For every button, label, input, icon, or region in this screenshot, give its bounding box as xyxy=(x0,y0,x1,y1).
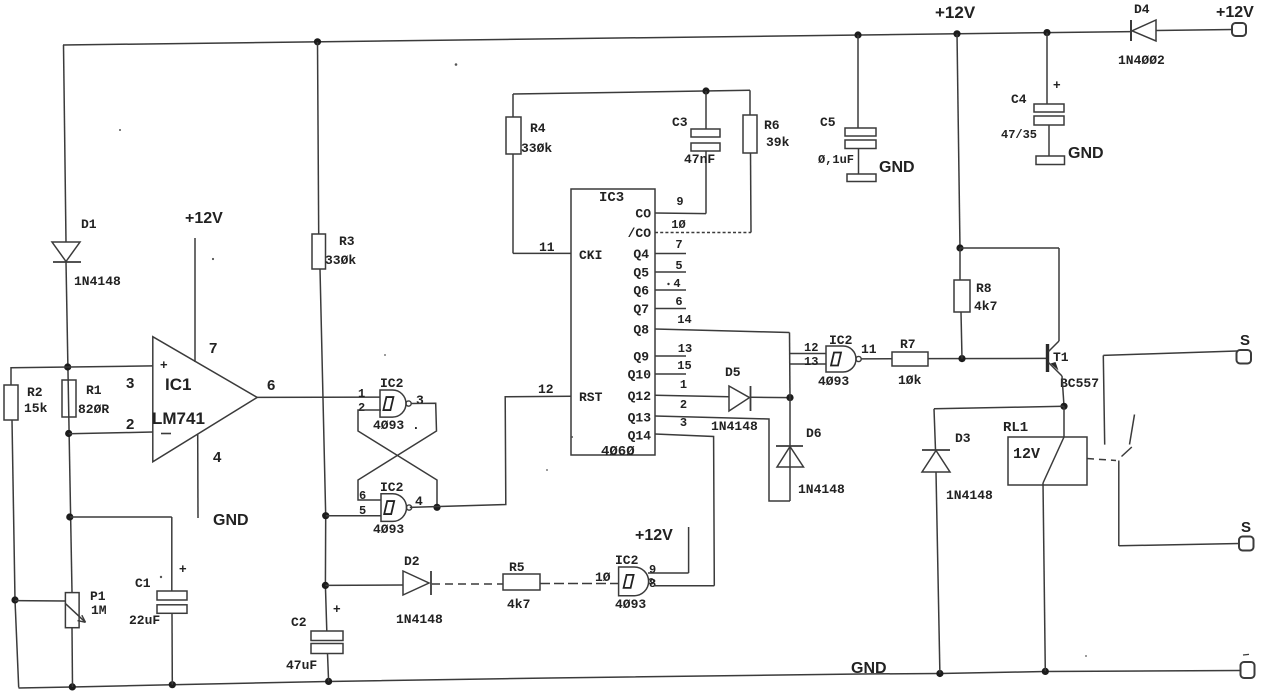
svg-text:CO: CO xyxy=(635,207,651,222)
svg-text:R2: R2 xyxy=(27,385,43,400)
svg-text:IC2: IC2 xyxy=(380,480,404,495)
svg-text:4Ø93: 4Ø93 xyxy=(615,597,646,612)
svg-text:C2: C2 xyxy=(291,615,307,630)
svg-text:IC2: IC2 xyxy=(829,333,853,348)
svg-text:+: + xyxy=(1053,77,1061,92)
svg-text:Q12: Q12 xyxy=(628,389,652,404)
svg-text:GND: GND xyxy=(879,159,915,176)
svg-text:IC2: IC2 xyxy=(615,553,639,568)
svg-text:1: 1 xyxy=(358,387,365,401)
svg-text:2: 2 xyxy=(358,401,365,415)
svg-text:12: 12 xyxy=(538,382,554,397)
svg-text:1Ø: 1Ø xyxy=(595,570,611,585)
svg-text:6: 6 xyxy=(675,295,682,309)
svg-text:S: S xyxy=(1241,519,1251,536)
svg-text:1N4148: 1N4148 xyxy=(798,482,845,497)
svg-text:D4: D4 xyxy=(1134,2,1150,17)
svg-text:47nF: 47nF xyxy=(684,152,715,167)
svg-text:+12V: +12V xyxy=(935,3,976,22)
svg-text:1Øk: 1Øk xyxy=(898,373,922,388)
svg-text:12V: 12V xyxy=(1013,446,1040,463)
svg-text:S: S xyxy=(1240,332,1250,349)
svg-text:1N4ØØ2: 1N4ØØ2 xyxy=(1118,53,1165,68)
svg-text:GND: GND xyxy=(851,660,887,677)
svg-text:6: 6 xyxy=(359,489,366,503)
svg-text:Q8: Q8 xyxy=(633,323,649,338)
svg-text:9: 9 xyxy=(649,563,656,577)
svg-text:GND: GND xyxy=(213,512,249,529)
svg-text:D2: D2 xyxy=(404,554,420,569)
svg-text:9: 9 xyxy=(676,195,683,209)
svg-text:Q5: Q5 xyxy=(633,266,649,281)
svg-text:47uF: 47uF xyxy=(286,658,317,673)
svg-text:Q10: Q10 xyxy=(628,368,652,383)
svg-text:GND: GND xyxy=(1068,145,1104,162)
svg-text:LM741: LM741 xyxy=(152,409,205,428)
svg-text:D1: D1 xyxy=(81,217,97,232)
svg-text:R5: R5 xyxy=(509,560,525,575)
svg-text:RL1: RL1 xyxy=(1003,420,1028,436)
svg-text:5: 5 xyxy=(675,259,682,273)
svg-text:1N4148: 1N4148 xyxy=(946,488,993,503)
svg-text:1: 1 xyxy=(680,378,687,392)
svg-text:2: 2 xyxy=(680,398,687,412)
svg-text:4: 4 xyxy=(213,449,222,466)
svg-text:C3: C3 xyxy=(672,115,688,130)
svg-text:T1: T1 xyxy=(1053,350,1069,365)
svg-text:33Øk: 33Øk xyxy=(521,141,552,156)
svg-text:8: 8 xyxy=(649,577,656,591)
svg-text:Q14: Q14 xyxy=(628,429,652,444)
svg-text:3: 3 xyxy=(416,393,424,408)
svg-text:Q9: Q9 xyxy=(633,350,649,365)
svg-text:Ø,1uF: Ø,1uF xyxy=(818,153,854,167)
svg-text:4Ø93: 4Ø93 xyxy=(818,374,849,389)
svg-text:D5: D5 xyxy=(725,365,741,380)
svg-text:39k: 39k xyxy=(766,135,790,150)
svg-text:/CO: /CO xyxy=(628,226,652,241)
svg-text:1N4148: 1N4148 xyxy=(711,419,758,434)
svg-text:+: + xyxy=(179,561,187,576)
svg-text:15k: 15k xyxy=(24,401,48,416)
svg-text:22uF: 22uF xyxy=(129,613,160,628)
svg-text:6: 6 xyxy=(267,377,275,394)
svg-text:R1: R1 xyxy=(86,383,102,398)
svg-text:IC2: IC2 xyxy=(380,376,404,391)
svg-text:4k7: 4k7 xyxy=(507,597,530,612)
svg-text:11: 11 xyxy=(539,240,555,255)
svg-text:4: 4 xyxy=(673,277,680,291)
svg-text:4k7: 4k7 xyxy=(974,299,997,314)
svg-text:R6: R6 xyxy=(764,118,780,133)
svg-text:IC3: IC3 xyxy=(599,190,624,206)
svg-text:R7: R7 xyxy=(900,337,916,352)
svg-text:C1: C1 xyxy=(135,576,151,591)
svg-text:4Ø6Ø: 4Ø6Ø xyxy=(601,444,635,460)
svg-text:Q6: Q6 xyxy=(633,284,649,299)
svg-text:1N4148: 1N4148 xyxy=(396,612,443,627)
svg-text:1N4148: 1N4148 xyxy=(74,274,121,289)
svg-text:RST: RST xyxy=(579,390,603,405)
svg-text:R3: R3 xyxy=(339,234,355,249)
svg-text:4Ø93: 4Ø93 xyxy=(373,522,404,537)
svg-text:3: 3 xyxy=(126,375,134,392)
svg-text:P1: P1 xyxy=(90,589,106,604)
svg-text:1Ø: 1Ø xyxy=(671,218,685,232)
svg-text:IC1: IC1 xyxy=(165,375,191,394)
svg-text:4Ø93 .: 4Ø93 . xyxy=(373,418,420,433)
svg-text:C4: C4 xyxy=(1011,92,1027,107)
svg-text:33Øk: 33Øk xyxy=(325,253,356,268)
svg-text:C5: C5 xyxy=(820,115,836,130)
svg-text:7: 7 xyxy=(675,238,682,252)
svg-text:11: 11 xyxy=(861,342,877,357)
svg-text:+12V: +12V xyxy=(635,527,673,544)
svg-text:12: 12 xyxy=(804,341,818,355)
svg-text:D6: D6 xyxy=(806,426,822,441)
svg-text:3: 3 xyxy=(680,416,687,430)
svg-text:R8: R8 xyxy=(976,281,992,296)
svg-text:Q4: Q4 xyxy=(633,247,649,262)
svg-text:7: 7 xyxy=(209,340,217,357)
svg-text:+: + xyxy=(333,601,341,616)
svg-text:+12V: +12V xyxy=(1216,4,1254,21)
svg-text:+12V: +12V xyxy=(185,210,223,227)
svg-text:13: 13 xyxy=(804,355,818,369)
svg-text:BC557: BC557 xyxy=(1060,376,1099,391)
svg-text:+: + xyxy=(160,357,168,372)
svg-text:82ØR: 82ØR xyxy=(78,402,109,417)
svg-text:D3: D3 xyxy=(955,431,971,446)
svg-text:14: 14 xyxy=(677,313,691,327)
svg-text:R4: R4 xyxy=(530,121,546,136)
svg-text:13: 13 xyxy=(678,342,692,356)
svg-text:Q7: Q7 xyxy=(633,302,649,317)
svg-text:CKI: CKI xyxy=(579,248,602,263)
svg-text:2: 2 xyxy=(126,416,134,433)
svg-text:47/35: 47/35 xyxy=(1001,128,1037,142)
svg-text:Q13: Q13 xyxy=(628,411,652,426)
svg-text:15: 15 xyxy=(677,359,691,373)
svg-text:1M: 1M xyxy=(91,603,107,618)
